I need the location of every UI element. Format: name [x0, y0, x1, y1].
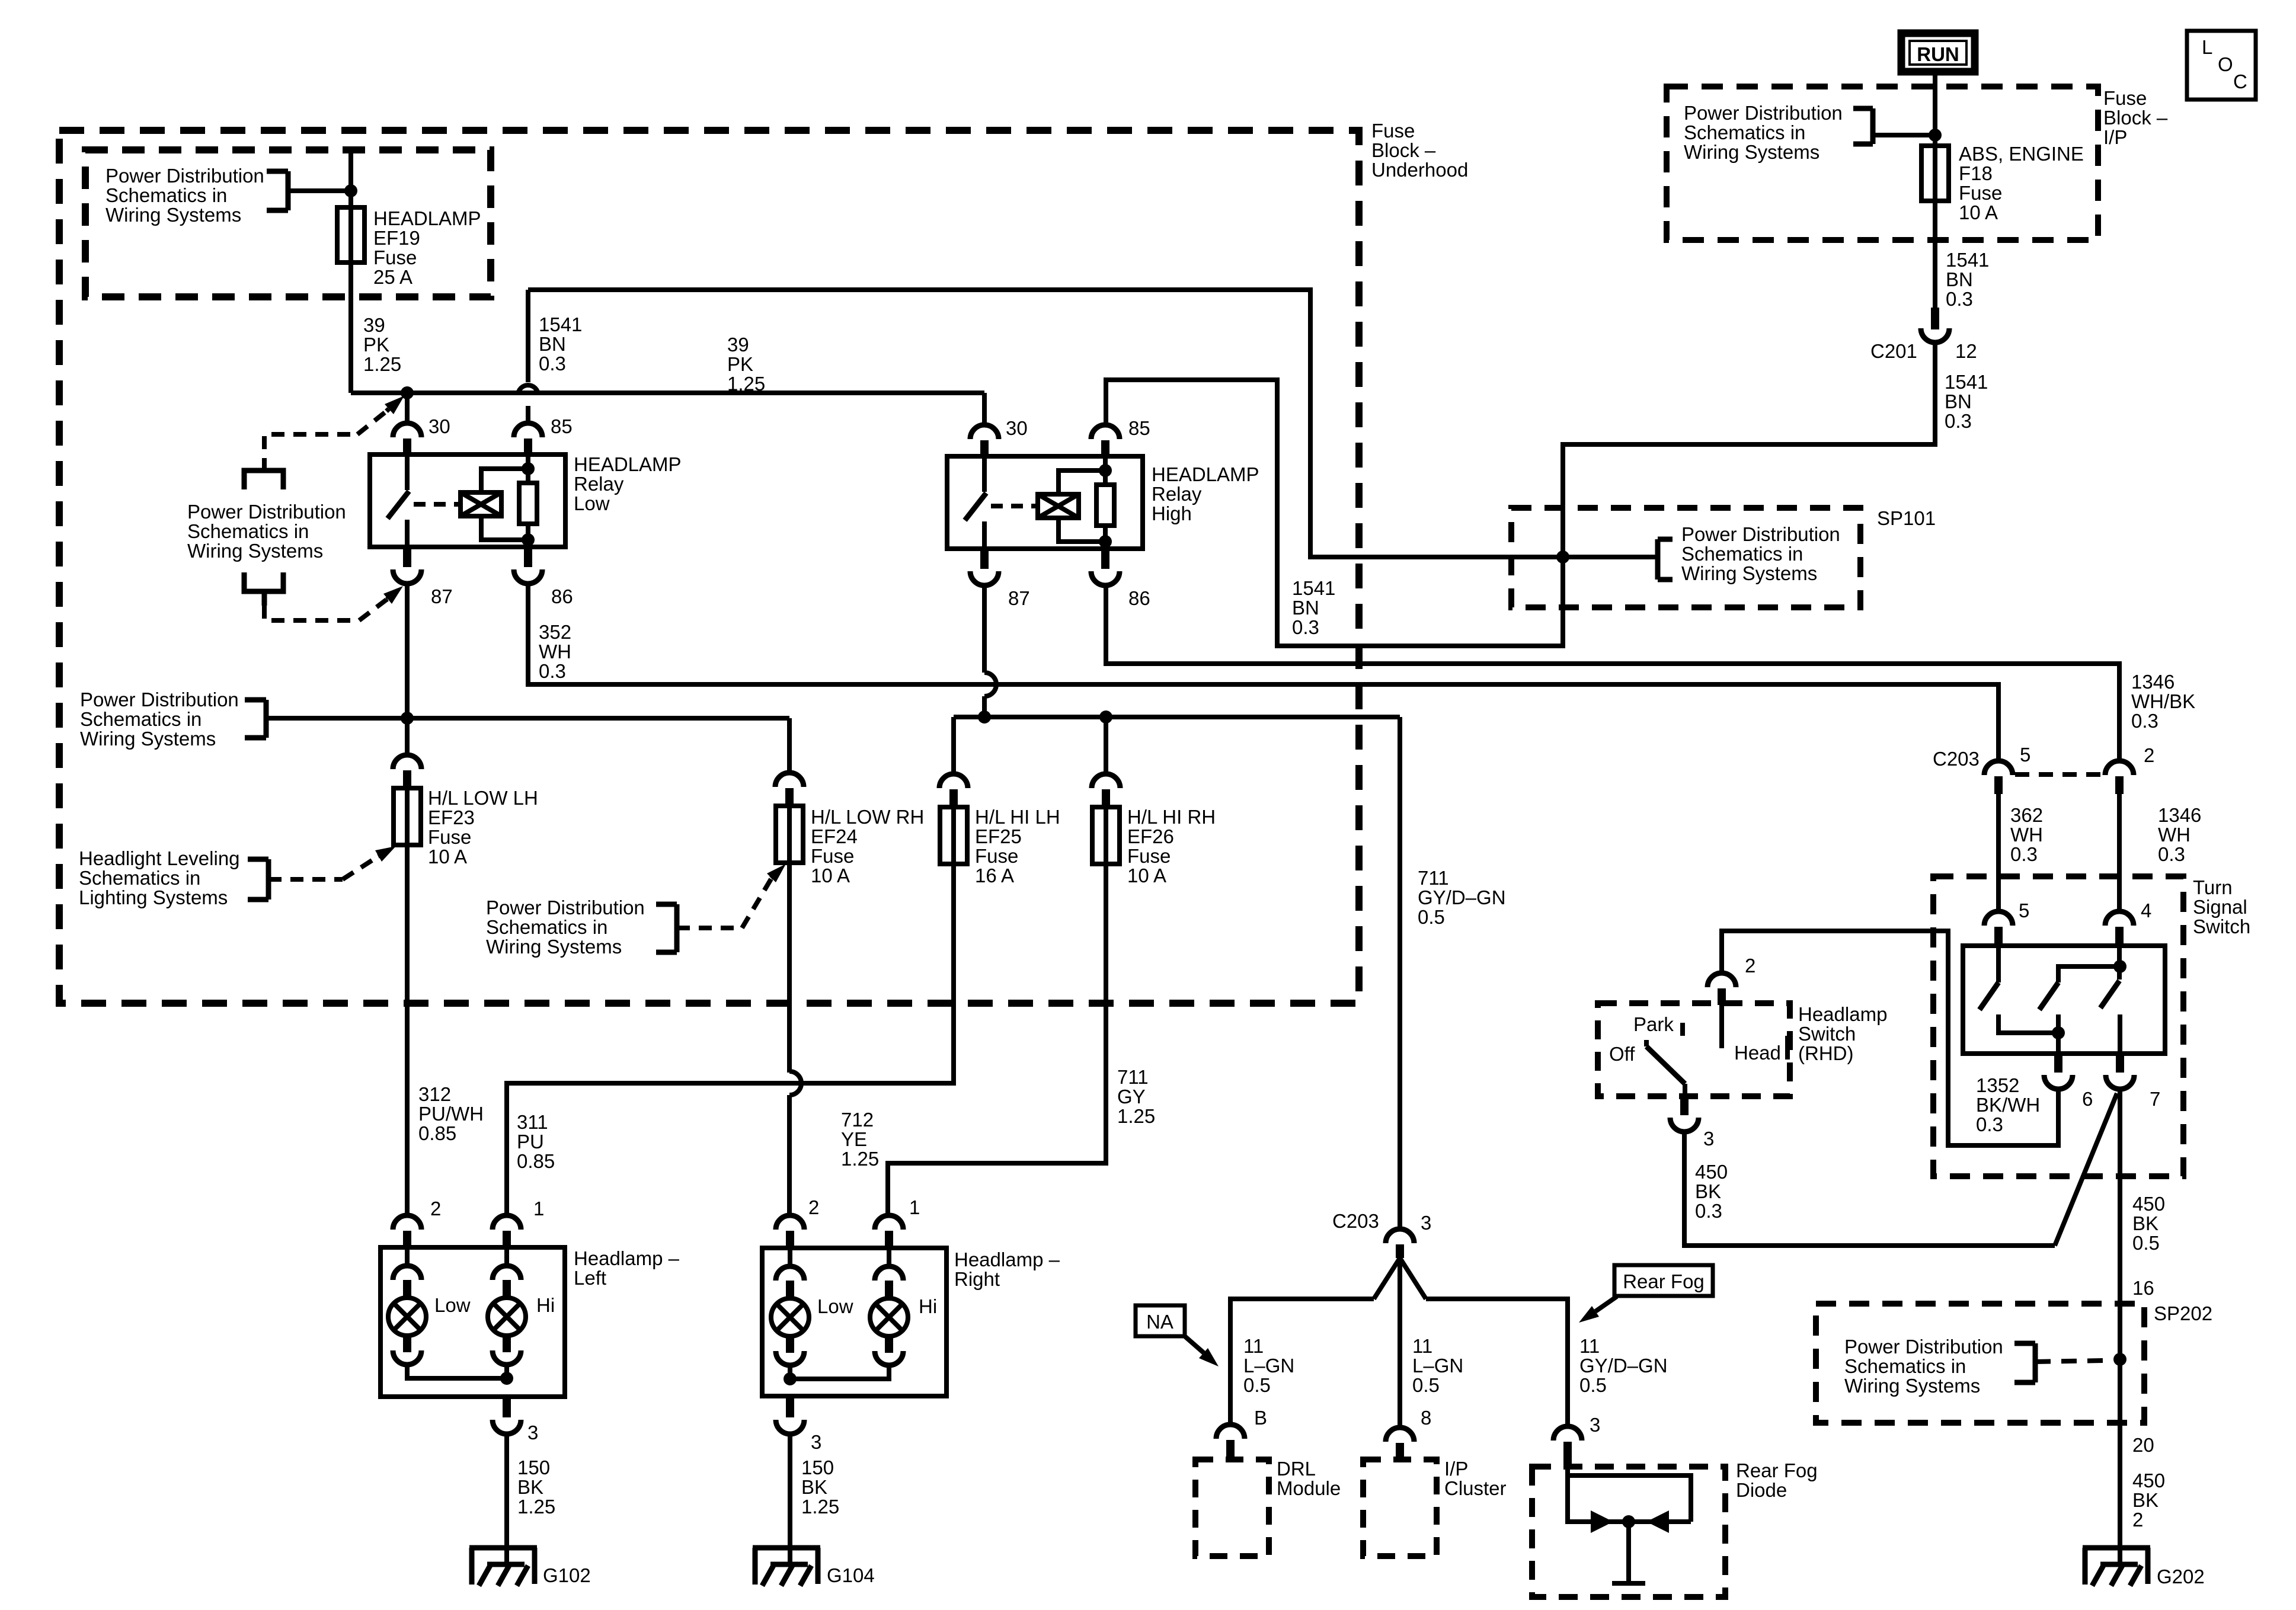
svg-text:2: 2: [1745, 955, 1755, 977]
wire 712 YE EF24 to headlamp right 2: [789, 863, 801, 1215]
svg-text:10 A: 10 A: [811, 865, 850, 886]
svg-text:PK: PK: [363, 334, 389, 356]
label HEADLAMP Relay Low: [574, 453, 682, 514]
label Headlamp - Left: [574, 1247, 680, 1289]
bracket Power Distribution (87 bus): [245, 700, 266, 738]
svg-text:3: 3: [527, 1422, 538, 1443]
label relay high 85: [1128, 417, 1150, 439]
label relay low 85: [551, 415, 573, 437]
dashed pointer to 87 wire: [264, 586, 403, 620]
relay Headlamp Relay High: [947, 425, 1143, 585]
connector headlamp switch pin 3: [1670, 1096, 1699, 1132]
svg-text:87: 87: [431, 585, 453, 607]
svg-text:O: O: [2218, 53, 2233, 75]
svg-text:NA: NA: [1146, 1311, 1173, 1333]
svg-text:Wiring Systems: Wiring Systems: [187, 540, 323, 562]
label Fuse Block - I/P: [2103, 87, 2168, 148]
label 11 L-GN 0.5 (cluster): [1412, 1335, 1463, 1396]
svg-text:EF19: EF19: [373, 227, 420, 249]
label 11 GY/D-GN 0.5: [1579, 1335, 1668, 1396]
svg-text:0.5: 0.5: [1579, 1374, 1607, 1396]
svg-text:8: 8: [1421, 1407, 1431, 1429]
svg-text:BK: BK: [2132, 1489, 2159, 1511]
node left lamp common: [500, 1372, 513, 1385]
svg-text:450: 450: [1695, 1161, 1728, 1183]
label pin 8: [1421, 1407, 1431, 1429]
svg-text:2: 2: [808, 1196, 819, 1218]
svg-text:Fuse: Fuse: [373, 247, 417, 268]
svg-text:Cluster: Cluster: [1444, 1477, 1507, 1499]
wire relay high 87 drop: [984, 585, 996, 717]
svg-text:312: 312: [418, 1083, 451, 1105]
wire 87 bus corner to EF24: [787, 718, 792, 773]
label 1541 BN 0.3 (fuse block): [539, 313, 582, 375]
RUN ignition switch position box: [1901, 33, 1975, 72]
wire bus tap to EF26: [1104, 717, 1108, 774]
svg-text:1.25: 1.25: [1117, 1105, 1155, 1127]
svg-text:Left: Left: [574, 1267, 606, 1289]
svg-text:WH: WH: [539, 641, 571, 662]
label 1346 WH/BK 0.3: [2131, 671, 2195, 732]
svg-text:1346: 1346: [2131, 671, 2175, 693]
switch headlamp blade: [1646, 1040, 1685, 1096]
svg-text:Power Distribution: Power Distribution: [1681, 523, 1840, 545]
label 311 PU 0.85: [517, 1111, 555, 1172]
svg-text:B: B: [1254, 1407, 1267, 1429]
label Hi (left): [536, 1294, 555, 1316]
svg-text:H/L HI LH: H/L HI LH: [975, 806, 1060, 828]
svg-text:1352: 1352: [1976, 1074, 2019, 1096]
svg-text:PU: PU: [517, 1131, 544, 1153]
dashed box EF19 feed: [85, 150, 491, 297]
svg-text:Lighting Systems: Lighting Systems: [79, 886, 228, 908]
node EF23 tap: [401, 712, 414, 725]
svg-text:25 A: 25 A: [373, 266, 412, 288]
svg-text:0.5: 0.5: [2132, 1232, 2160, 1254]
label 450 BK 0.3: [1695, 1161, 1728, 1222]
svg-text:Power Distribution: Power Distribution: [1844, 1336, 2003, 1358]
svg-text:WH/BK: WH/BK: [2131, 690, 2195, 712]
arrow NA pointer: [1185, 1336, 1219, 1366]
svg-text:0.3: 0.3: [1976, 1113, 2003, 1135]
label headlamp right pin 1: [909, 1196, 920, 1218]
svg-text:Turn: Turn: [2193, 876, 2233, 898]
lamp right hi: [870, 1248, 908, 1365]
bracket Power Distribution (SP202): [2014, 1343, 2035, 1382]
svg-text:Power Distribution: Power Distribution: [486, 897, 645, 918]
label 1352 BK/WH 0.3: [1976, 1074, 2040, 1135]
svg-text:Hi: Hi: [536, 1294, 555, 1316]
svg-text:30: 30: [1006, 417, 1028, 439]
label pin 12: [1955, 340, 1977, 362]
svg-text:H/L LOW LH: H/L LOW LH: [428, 787, 538, 809]
label relay high 87: [1008, 587, 1030, 609]
label Headlight Leveling Schematics: [79, 847, 240, 908]
svg-text:C203: C203: [1332, 1210, 1379, 1232]
node diode center: [1622, 1515, 1635, 1528]
svg-text:0.85: 0.85: [418, 1122, 456, 1144]
label pin 3 (C203): [1421, 1212, 1431, 1234]
wire headlamp switch pole: [1719, 1005, 1724, 1048]
wire RUN to fuse F18: [1933, 75, 1937, 146]
label Power Distribution (I/P): [1684, 102, 1843, 163]
svg-text:11: 11: [1579, 1335, 1600, 1357]
svg-text:Park: Park: [1633, 1013, 1674, 1035]
wire 362 WH: [1996, 794, 2001, 911]
wire branch to rear fog diode: [1426, 1299, 1568, 1426]
wire bus corner to C203-3: [1398, 717, 1402, 1229]
label 16: [2132, 1277, 2154, 1299]
svg-text:BK/WH: BK/WH: [1976, 1094, 2040, 1116]
label 150 BK 1.25 (left): [517, 1457, 555, 1518]
label headlamp right pin 3: [811, 1431, 821, 1453]
label C203 (pin 3): [1332, 1210, 1379, 1232]
ground G104: [753, 1544, 820, 1586]
svg-text:Power Distribution: Power Distribution: [105, 165, 264, 187]
label 450 BK 0.5: [2132, 1193, 2165, 1254]
svg-text:0.3: 0.3: [1945, 410, 1972, 432]
svg-text:Head: Head: [1734, 1042, 1781, 1064]
svg-text:3: 3: [811, 1431, 821, 1453]
svg-text:HEADLAMP: HEADLAMP: [373, 207, 481, 229]
wire 312 PU/WH EF23 to headlamp left 2: [405, 845, 410, 1215]
label 1541 BN 0.3 (relay high): [1292, 577, 1335, 638]
label headlamp switch pin 2: [1745, 955, 1755, 977]
svg-text:BN: BN: [1292, 597, 1319, 619]
svg-text:0.85: 0.85: [517, 1150, 555, 1172]
label 711 GY 1.25: [1117, 1066, 1155, 1127]
connector TSS pin 5: [1984, 911, 2013, 946]
label Headlamp Switch (RHD): [1798, 1003, 1887, 1064]
ground G202: [2083, 1544, 2150, 1586]
svg-text:0.5: 0.5: [1243, 1374, 1271, 1396]
svg-text:High: High: [1152, 502, 1192, 524]
connector headlamp right pin 3: [776, 1396, 804, 1434]
connector TSS pin 7: [2106, 1054, 2134, 1089]
svg-text:0.3: 0.3: [2131, 710, 2159, 732]
svg-text:GY/D–GN: GY/D–GN: [1418, 886, 1506, 908]
wire 450 BK 0.5: [2118, 1089, 2122, 1548]
svg-text:I/P: I/P: [2103, 126, 2127, 148]
label G104: [827, 1564, 875, 1586]
label headlamp right pin 2: [808, 1196, 819, 1218]
svg-text:L–GN: L–GN: [1243, 1355, 1294, 1377]
box NA flag: [1136, 1305, 1185, 1336]
svg-text:Wiring Systems: Wiring Systems: [105, 204, 241, 226]
svg-text:GY/D–GN: GY/D–GN: [1579, 1355, 1668, 1377]
dashed box DRL Module: [1195, 1459, 1269, 1556]
label headlamp switch pin 3: [1703, 1128, 1714, 1150]
label pin 3 (diode): [1590, 1414, 1600, 1436]
svg-text:Schematics in: Schematics in: [1684, 121, 1805, 143]
svg-text:87: 87: [1008, 587, 1030, 609]
svg-text:86: 86: [551, 585, 573, 607]
svg-text:GY: GY: [1117, 1086, 1146, 1108]
wire EF23 feed stub: [405, 718, 410, 756]
svg-text:Power Distribution: Power Distribution: [1684, 102, 1843, 124]
wire C203-3 split: [1374, 1258, 1426, 1427]
svg-text:BK: BK: [517, 1476, 543, 1498]
node TSS pin4 link: [2113, 960, 2126, 973]
connector fuse EF24 input: [775, 773, 804, 806]
wire 150 BK right: [788, 1434, 792, 1548]
svg-text:0.5: 0.5: [1412, 1374, 1440, 1396]
connector C203 pin 2: [2105, 761, 2134, 794]
svg-text:G202: G202: [2157, 1566, 2205, 1587]
svg-text:Block –: Block –: [2103, 107, 2168, 129]
box Headlamp - Left: [380, 1247, 565, 1397]
svg-text:F18: F18: [1959, 162, 1993, 184]
wire relay low 87 bus: [266, 584, 789, 718]
label relay low 30: [428, 415, 450, 437]
node EF26 tap: [1099, 710, 1112, 724]
bracket Power Distribution (SP101): [1658, 539, 1673, 580]
svg-text:Schematics in: Schematics in: [486, 916, 607, 938]
label relay high 30: [1006, 417, 1028, 439]
svg-text:DRL: DRL: [1277, 1458, 1316, 1480]
label TSS pin 5: [2019, 900, 2029, 921]
connector fuse EF26 input: [1092, 774, 1120, 807]
label pin 2 (C203): [2144, 744, 2154, 766]
svg-text:30: 30: [428, 415, 450, 437]
svg-text:Right: Right: [954, 1268, 1000, 1290]
label 1346 WH 0.3: [2158, 804, 2201, 865]
svg-text:Headlight Leveling: Headlight Leveling: [79, 847, 240, 869]
svg-text:Schematics in: Schematics in: [187, 520, 309, 542]
svg-text:YE: YE: [841, 1128, 867, 1150]
svg-text:0.3: 0.3: [1695, 1200, 1722, 1222]
connector TSS pin 6: [2044, 1054, 2073, 1089]
lamp right low: [771, 1248, 809, 1365]
svg-text:Fuse: Fuse: [1127, 845, 1171, 867]
svg-text:Off: Off: [1609, 1043, 1635, 1065]
bracket Power Distribution (I/P): [1853, 108, 1873, 144]
label Headlamp - Right: [954, 1249, 1060, 1290]
wire left lamps common: [407, 1365, 507, 1378]
label H/L LOW LH EF23 Fuse 10 A: [428, 787, 538, 868]
dashed box I/P Cluster: [1363, 1459, 1437, 1556]
label Power Distribution (SP202): [1844, 1336, 2003, 1397]
label H/L LOW RH EF24 Fuse 10 A: [811, 806, 924, 886]
svg-text:2: 2: [2132, 1509, 2143, 1531]
svg-text:G102: G102: [543, 1564, 591, 1586]
wire relay high 87 bus: [954, 715, 1400, 719]
switch TSS low beam: [1980, 946, 2058, 1033]
svg-text:Switch: Switch: [2193, 916, 2250, 937]
wire bracket to EF19 node: [288, 188, 351, 193]
svg-text:WH: WH: [2158, 824, 2191, 846]
bracket Headlight Leveling: [248, 859, 268, 900]
dashed wire bracket to SP202: [2035, 1361, 2104, 1362]
svg-text:C201: C201: [1870, 340, 1917, 362]
svg-text:711: 711: [1418, 867, 1449, 889]
svg-text:150: 150: [801, 1457, 834, 1478]
svg-text:Low: Low: [434, 1294, 471, 1316]
svg-text:EF23: EF23: [428, 806, 475, 828]
svg-text:Wiring Systems: Wiring Systems: [486, 936, 622, 958]
label Fuse Block - Underhood: [1371, 120, 1468, 181]
svg-text:39: 39: [727, 334, 749, 356]
svg-text:Low: Low: [817, 1295, 853, 1317]
connector C203 pin 3: [1386, 1229, 1414, 1258]
box Rear Fog flag: [1614, 1265, 1713, 1296]
wire bracket to F18 node: [1873, 133, 1935, 137]
label Power Distribution (87 bus): [80, 689, 239, 750]
label Power Distribution (EF19): [105, 165, 264, 226]
node SP101: [1556, 550, 1569, 564]
connector headlamp left pin 2: [393, 1215, 421, 1247]
svg-text:1541: 1541: [1292, 577, 1335, 599]
label Low (right): [817, 1295, 853, 1317]
svg-text:10 A: 10 A: [428, 846, 467, 868]
svg-text:BN: BN: [539, 333, 566, 355]
svg-text:Module: Module: [1277, 1477, 1341, 1499]
connector fuse EF25 input: [939, 774, 968, 807]
wire 39PK to relay high 30: [982, 393, 987, 425]
svg-text:1541: 1541: [539, 313, 582, 335]
fuse EF23: [394, 788, 421, 845]
svg-text:PK: PK: [727, 353, 753, 375]
svg-text:EF26: EF26: [1127, 825, 1174, 847]
svg-text:Underhood: Underhood: [1371, 159, 1468, 181]
box Headlamp - Right: [762, 1248, 946, 1396]
label Hi (right): [919, 1295, 937, 1317]
connector C203 pin 5: [1984, 761, 2013, 794]
svg-text:Switch: Switch: [1798, 1023, 1856, 1045]
connector I/P cluster pin 8: [1386, 1427, 1414, 1459]
bracket top (relay pointer): [244, 470, 283, 489]
label Rear Fog Diode: [1736, 1459, 1818, 1501]
svg-text:SP101: SP101: [1877, 507, 1936, 529]
fuse EF25: [940, 807, 967, 864]
svg-text:L: L: [2202, 36, 2212, 58]
svg-text:85: 85: [551, 415, 573, 437]
svg-text:Headlamp –: Headlamp –: [574, 1247, 680, 1269]
svg-text:4: 4: [2141, 900, 2151, 921]
dashed box Rear Fog Diode: [1532, 1467, 1725, 1597]
box TSS contacts: [1963, 946, 2165, 1054]
svg-text:Headlamp –: Headlamp –: [954, 1249, 1060, 1270]
label 11 L-GN 0.5 (DRL): [1243, 1335, 1294, 1396]
node TSS pin6 link: [2052, 1026, 2065, 1039]
node EF19 feed: [344, 184, 357, 197]
svg-text:EF25: EF25: [975, 825, 1022, 847]
dashed connector line C203: [2015, 772, 2104, 777]
connector fuse EF23 input: [393, 755, 421, 788]
dashed box SP101: [1511, 508, 1860, 607]
svg-text:Wiring Systems: Wiring Systems: [1684, 141, 1819, 163]
svg-text:PU/WH: PU/WH: [418, 1103, 484, 1125]
svg-text:Fuse: Fuse: [428, 826, 471, 848]
svg-text:EF24: EF24: [811, 825, 858, 847]
wire relay high 85 loop: [1106, 380, 1563, 646]
svg-text:H/L HI RH: H/L HI RH: [1127, 806, 1216, 828]
node F18 feed: [1929, 129, 1942, 142]
wire 450 BK 0.3 to pin 7: [1684, 1093, 2117, 1246]
label pin 5 (C203): [2020, 744, 2030, 766]
wire relay high 86 to C203-2: [1106, 585, 2119, 761]
svg-text:Power Distribution: Power Distribution: [187, 501, 346, 523]
svg-text:BN: BN: [1945, 391, 1972, 412]
label ABS ENGINE F18 Fuse 10 A: [1959, 143, 2084, 223]
svg-text:0.3: 0.3: [1292, 616, 1319, 638]
svg-text:Fuse: Fuse: [975, 845, 1018, 867]
wire diode loop: [1568, 1467, 1691, 1522]
svg-text:L–GN: L–GN: [1412, 1355, 1463, 1377]
label SP202: [2154, 1302, 2212, 1324]
svg-text:Power Distribution: Power Distribution: [80, 689, 239, 710]
switch TSS middle: [2039, 966, 2120, 1033]
label 711 GY/D-GN 0.5: [1418, 867, 1506, 928]
svg-text:Relay: Relay: [1152, 483, 1202, 505]
label 150 BK 1.25 (right): [801, 1457, 839, 1518]
label C201: [1870, 340, 1917, 362]
wire 39PK to relay low 30: [405, 393, 410, 423]
svg-text:SP202: SP202: [2154, 1302, 2212, 1324]
svg-text:450: 450: [2132, 1193, 2165, 1215]
wire 711 GY EF26 to headlamp right 1: [888, 864, 1106, 1215]
connector headlamp left pin 3: [493, 1397, 521, 1434]
label HEADLAMP EF19 Fuse 25 A: [373, 207, 481, 288]
svg-text:11: 11: [1412, 1335, 1432, 1357]
svg-text:12: 12: [1955, 340, 1977, 362]
svg-text:I/P: I/P: [1444, 1458, 1468, 1480]
connector C201 pin 12: [1921, 308, 1949, 343]
bracket bottom (relay pointer): [244, 572, 283, 606]
svg-text:86: 86: [1128, 587, 1150, 609]
label TSS pin 4: [2141, 900, 2151, 921]
svg-text:Wiring Systems: Wiring Systems: [1681, 562, 1817, 584]
fuse EF19: [337, 207, 364, 263]
svg-text:BK: BK: [1695, 1180, 1721, 1202]
fuse EF26: [1092, 807, 1120, 864]
svg-text:Fuse: Fuse: [2103, 87, 2147, 109]
connector headlamp left pin 1: [493, 1215, 521, 1247]
svg-text:1: 1: [533, 1198, 544, 1219]
label relay high 86: [1128, 587, 1150, 609]
svg-text:1.25: 1.25: [363, 353, 401, 375]
svg-text:150: 150: [517, 1457, 550, 1478]
svg-text:Signal: Signal: [2193, 896, 2247, 918]
label pin B: [1254, 1407, 1267, 1429]
svg-text:G104: G104: [827, 1564, 875, 1586]
svg-text:362: 362: [2010, 804, 2043, 826]
diode left (points right): [1591, 1510, 1613, 1533]
label 1541 BN 0.3 (above C201): [1946, 249, 1989, 310]
wire TSS to pin 6: [2056, 1033, 2061, 1054]
svg-text:ABS, ENGINE: ABS, ENGINE: [1959, 143, 2084, 165]
connector headlamp right pin 1: [875, 1215, 903, 1248]
dashed box Headlamp Switch: [1598, 1003, 1790, 1096]
svg-text:HEADLAMP: HEADLAMP: [574, 453, 682, 475]
wire C201 to SP101: [1563, 343, 1935, 556]
diode right (points left): [1646, 1510, 1669, 1533]
svg-text:Fuse: Fuse: [1371, 120, 1415, 142]
label G202: [2157, 1566, 2205, 1587]
wire 311 PU EF25 to headlamp left 1: [507, 864, 954, 1215]
svg-text:0.3: 0.3: [539, 353, 566, 375]
connector DRL module pin B: [1216, 1425, 1245, 1459]
svg-text:Schematics in: Schematics in: [105, 184, 227, 206]
wire right lamps common: [790, 1365, 889, 1379]
fuse F18: [1921, 146, 1949, 201]
dashed box Turn Signal Switch: [1933, 876, 2183, 1176]
connector rear fog diode pin 3: [1553, 1426, 1582, 1467]
relay Headlamp Relay Low: [370, 423, 565, 584]
svg-text:Schematics in: Schematics in: [80, 708, 202, 730]
svg-text:1541: 1541: [1945, 371, 1988, 393]
wire bus corner to EF25: [951, 717, 956, 774]
